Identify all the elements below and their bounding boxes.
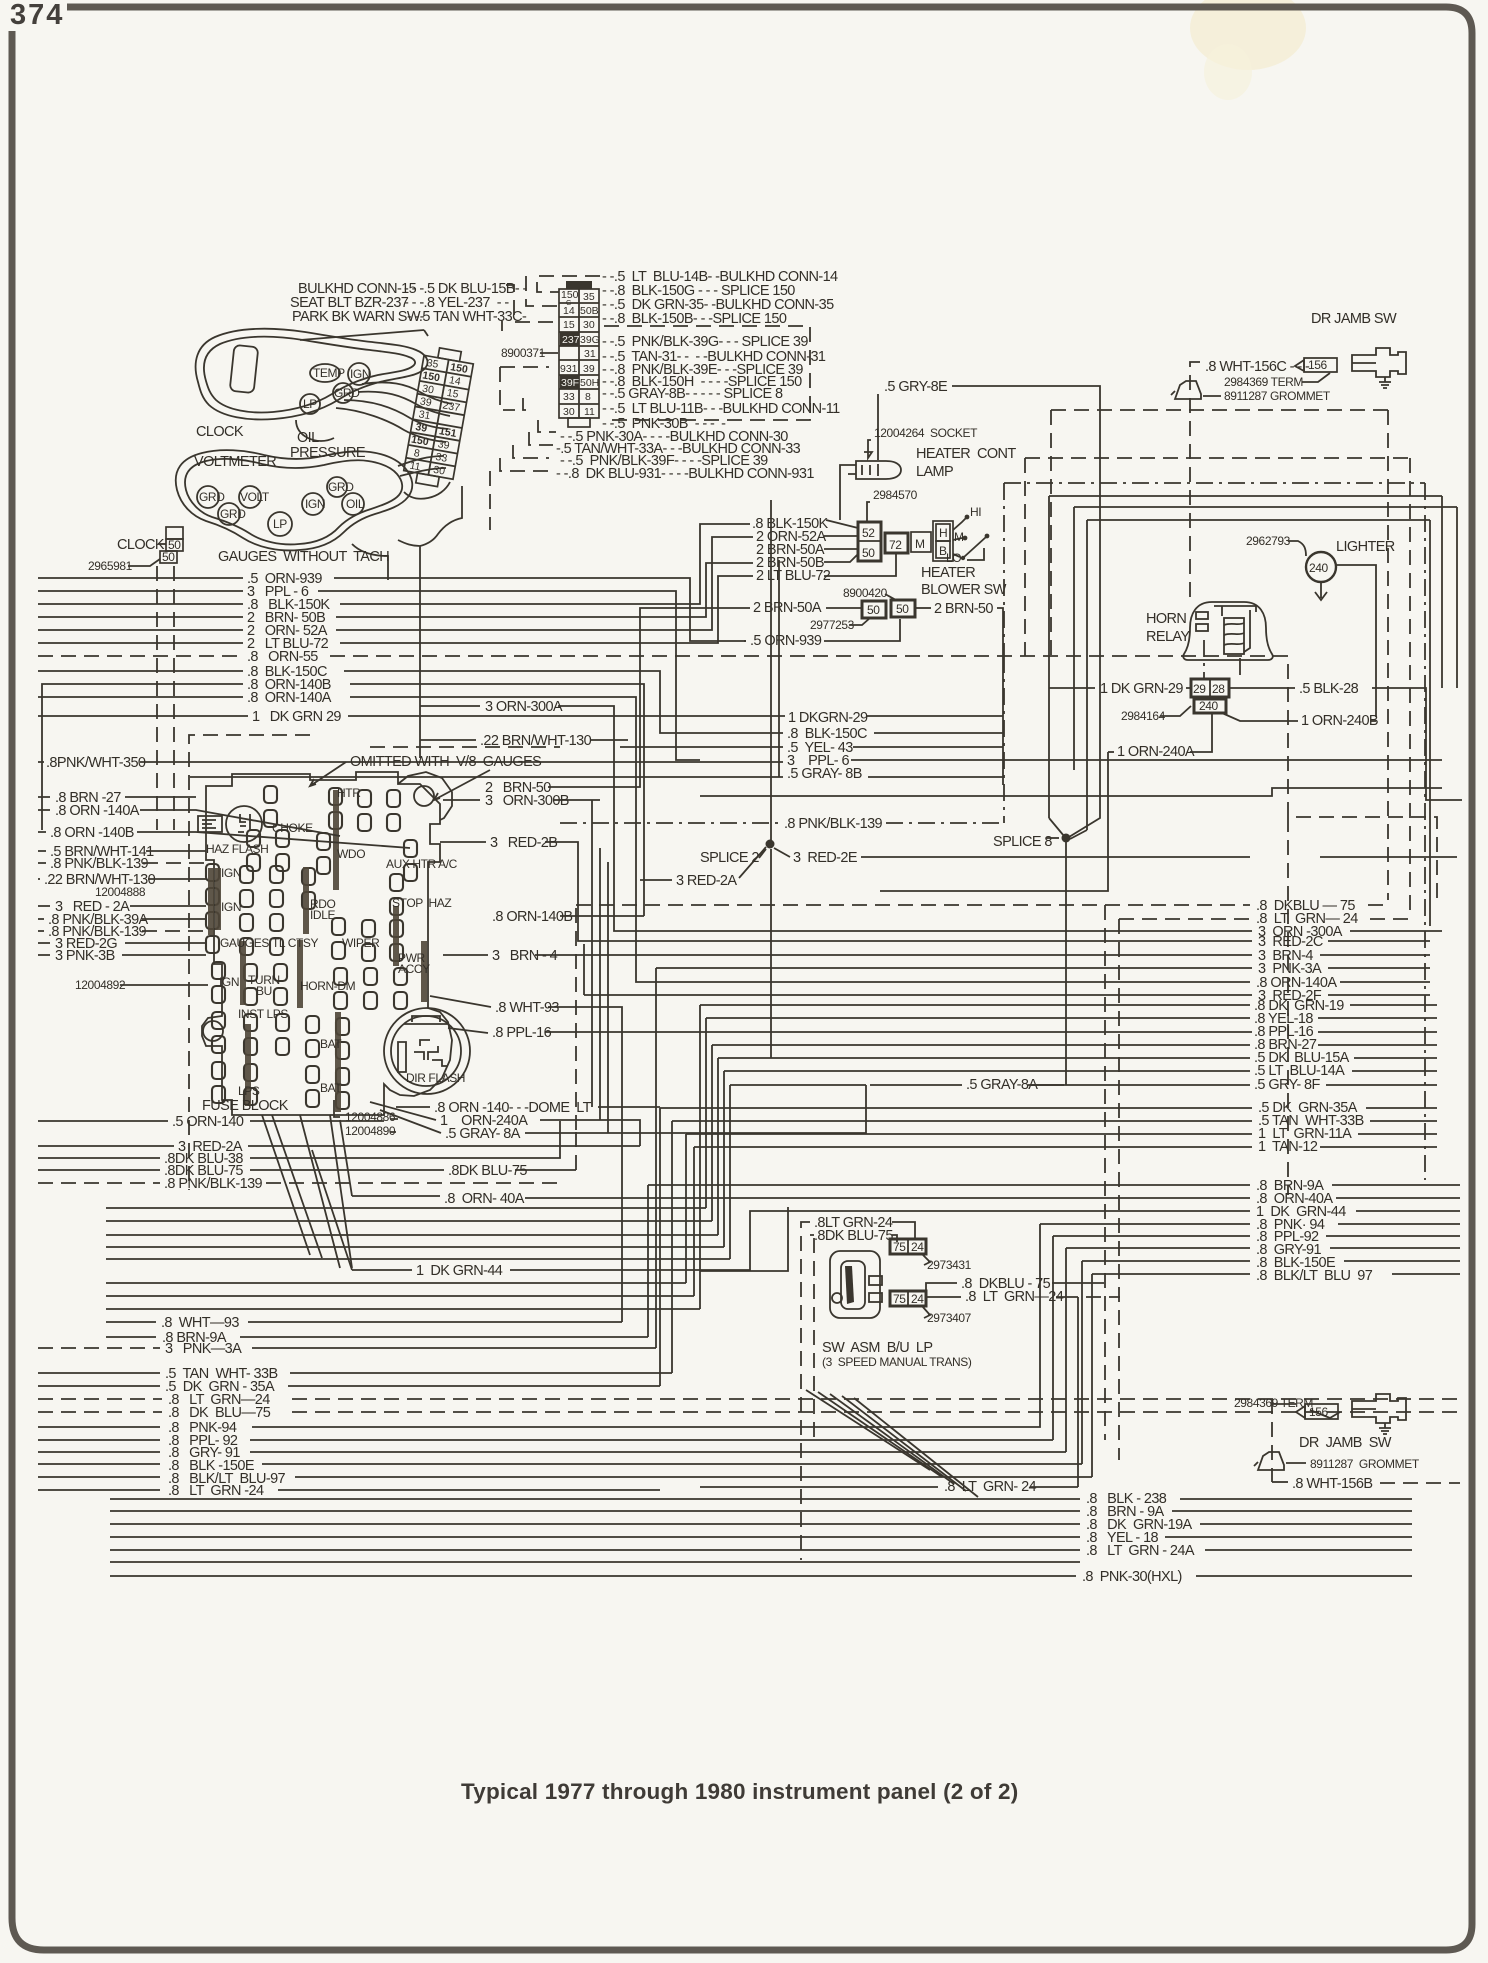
svg-text:.8 LT GRN—24: .8 LT GRN—24 (965, 1289, 1064, 1305)
wire 1 DK GRN-44 (312, 1150, 1460, 1270)
clock leads dashed (157, 566, 174, 830)
svg-text:35: 35 (426, 357, 440, 371)
svg-text:3 ORN-300B: 3 ORN-300B (485, 793, 569, 809)
wire 1 DK GRN 29 row (38, 715, 1003, 717)
horn relay (1183, 602, 1273, 660)
splice8 feed from GRY-8E (1069, 560, 1100, 837)
connector 75|24 upper (890, 1239, 926, 1254)
svg-text:39G: 39G (580, 334, 600, 346)
connector M (911, 532, 931, 552)
svg-text:14: 14 (563, 305, 575, 317)
svg-text:240: 240 (1309, 561, 1329, 575)
svg-text:3 PNK-3B: 3 PNK-3B (55, 948, 115, 964)
fuse right risers (592, 800, 608, 1133)
svg-text:374: 374 (10, 0, 64, 31)
fuse row 7 (212, 1062, 225, 1103)
svg-text:GRD: GRD (334, 386, 360, 400)
dark bus bars (211, 790, 424, 1112)
svg-text:1 ORN-240B: 1 ORN-240B (1301, 713, 1378, 729)
svg-text:24: 24 (911, 1292, 924, 1306)
circle GRD upper (333, 383, 353, 403)
svg-text:.8 PPL-16: .8 PPL-16 (492, 1025, 552, 1041)
wire 3 BRN-4 row (443, 954, 1430, 956)
svg-text:30: 30 (421, 383, 435, 397)
svg-text:8911287 GROMMET: 8911287 GROMMET (1310, 1457, 1420, 1471)
svg-text:2973407: 2973407 (927, 1311, 972, 1325)
backup lamp switch body (830, 1251, 880, 1318)
fuse row 5 (212, 962, 225, 1003)
circle TEMP (310, 364, 340, 382)
svg-text:1 DK GRN 29: 1 DK GRN 29 (252, 709, 341, 725)
trace fan from cluster to connector (362, 382, 452, 404)
svg-text:DR JAMB SW: DR JAMB SW (1299, 1435, 1392, 1451)
connector 75|24 lower (890, 1291, 926, 1306)
svg-text:GRD: GRD (220, 507, 246, 521)
svg-text:30: 30 (583, 319, 595, 331)
svg-text:IGN: IGN (221, 900, 241, 914)
dashed web left of connector (537, 276, 600, 292)
svg-text:33: 33 (563, 391, 575, 403)
svg-text:.22 BRN/WHT-130: .22 BRN/WHT-130 (480, 733, 592, 749)
svg-text:DR JAMB SW: DR JAMB SW (1311, 311, 1397, 327)
mounting ear top right (398, 772, 452, 820)
dashed bus top right (1051, 410, 1388, 656)
svg-text:.8 LT GRN -24: .8 LT GRN -24 (168, 1483, 264, 1499)
svg-text:.22 BRN/WHT-130: .22 BRN/WHT-130 (44, 872, 156, 888)
wire .8 DK BLU-75 center (38, 1169, 576, 1171)
svg-text:M: M (954, 530, 964, 544)
svg-text:LP: LP (273, 517, 287, 531)
wire unlabeled row (110, 1561, 1080, 1563)
cluster bottom legs (352, 544, 388, 580)
wire jog row (700, 788, 1442, 796)
fuse row 1 (264, 786, 277, 827)
heater cont lamp socket (856, 461, 901, 479)
wire .8 PNK/WHT-350 row (38, 760, 1442, 762)
instrument cluster printed circuit outline (196, 329, 428, 420)
svg-text:2977253: 2977253 (810, 618, 855, 632)
svg-text:50: 50 (896, 602, 909, 616)
svg-text:15: 15 (446, 387, 460, 401)
wire .8 PPL-16 row (448, 1028, 1437, 1033)
svg-text:.5 GRY- 8F: .5 GRY- 8F (1254, 1077, 1320, 1093)
svg-text:3 BRN - 4: 3 BRN - 4 (492, 948, 558, 964)
svg-text:BLOWER SW: BLOWER SW (921, 582, 1007, 598)
svg-text:STOP HAZ: STOP HAZ (392, 896, 451, 910)
riser 2 BRN-50 to fuse (548, 608, 750, 787)
dashed riser bottom jamb (1271, 1399, 1273, 1482)
svg-text:50B: 50B (580, 305, 599, 317)
svg-text:8: 8 (585, 391, 591, 403)
lighter socket (1306, 552, 1336, 582)
heater blower feed connector 52/50 (858, 522, 881, 561)
door jamb switch icon (top) (1352, 348, 1406, 377)
circle IGN lower (302, 493, 324, 515)
svg-text:IDLE: IDLE (310, 908, 335, 922)
wire 3 ORN-300B (443, 799, 600, 801)
svg-text:237: 237 (562, 334, 580, 346)
svg-text:SW ASM B/U LP: SW ASM B/U LP (822, 1340, 932, 1356)
svg-text:30: 30 (563, 406, 575, 418)
svg-text:VOLTMETER: VOLTMETER (194, 454, 276, 470)
right-edge descending bus (1387, 410, 1389, 900)
dashed riser from jamb switch (1190, 362, 1200, 600)
svg-text:GRD: GRD (199, 490, 225, 504)
svg-text:- -.5 PNK/BLK-39G- - - SPLICE: - -.5 PNK/BLK-39G- - - SPLICE 39 (602, 334, 808, 350)
circle VOLT (239, 486, 261, 508)
svg-text:OIL: OIL (346, 497, 365, 511)
svg-text:2962793: 2962793 (1246, 534, 1291, 548)
svg-text:PRESSURE: PRESSURE (290, 445, 366, 461)
svg-text:GAUGES WITHOUT TACH: GAUGES WITHOUT TACH (218, 549, 389, 565)
svg-text:OIL: OIL (297, 430, 319, 446)
terminal 156 plug (bottom) (1296, 1406, 1305, 1418)
svg-text:3 ORN-300A: 3 ORN-300A (485, 699, 563, 715)
svg-text:INST LPS: INST LPS (238, 1007, 288, 1021)
svg-text:LPS: LPS (238, 1084, 260, 1098)
wire lighter to ORN-240B (1336, 565, 1376, 717)
wire 3 PPL-6 row (38, 591, 700, 760)
svg-text:BU: BU (256, 984, 272, 998)
svg-text:12004264 SOCKET: 12004264 SOCKET (874, 426, 978, 440)
dashed box around splice-39 group (604, 326, 810, 420)
dashed harness enclosure around fuse block (189, 735, 310, 1190)
svg-text:- -.5 TAN WHT-33C-: - -.5 TAN WHT-33C- (407, 309, 527, 325)
svg-text:156: 156 (1308, 358, 1328, 372)
svg-text:8900371: 8900371 (501, 346, 546, 360)
svg-text:3 PNK—3A: 3 PNK—3A (165, 1341, 242, 1357)
svg-text:VOLT: VOLT (240, 490, 270, 504)
svg-text:72: 72 (889, 538, 902, 552)
wire 1 ORN-240A center (38, 1102, 640, 1146)
svg-text:156: 156 (1309, 1405, 1329, 1419)
svg-text:H: H (939, 526, 947, 540)
svg-text:2984570: 2984570 (873, 488, 918, 502)
wire .8 BLK-150C row (38, 671, 1003, 733)
svg-text:GRD: GRD (328, 480, 354, 494)
svg-text:- -.8 DK BLU-931- - - -BULKHD: - -.8 DK BLU-931- - - -BULKHD CONN-931 (556, 466, 814, 482)
svg-text:11: 11 (584, 406, 595, 418)
solid bus top right (1049, 496, 1442, 818)
circle LP upper (300, 394, 320, 414)
svg-text:39: 39 (583, 363, 595, 375)
wire .8 ORN-140 dome lt (396, 1106, 660, 1108)
clock window slot (230, 345, 259, 393)
svg-text:75: 75 (893, 1292, 906, 1306)
svg-text:.8PNK/WHT-350: .8PNK/WHT-350 (46, 755, 146, 771)
relay leads to connector (1203, 640, 1205, 679)
svg-text:.8 ORN-140B: .8 ORN-140B (492, 909, 572, 925)
grommet icon (top) (1171, 381, 1201, 399)
svg-text:(3 SPEED MANUAL TRANS): (3 SPEED MANUAL TRANS) (822, 1355, 972, 1369)
svg-text:AUX HTR A/C: AUX HTR A/C (386, 857, 458, 871)
svg-text:1 TAN-12: 1 TAN-12 (1258, 1139, 1318, 1155)
wire 2 LT BLU-72 row (38, 576, 753, 643)
svg-text:31: 31 (584, 348, 596, 360)
wire 1 ORN-240B (1222, 713, 1298, 721)
wire .22 BRN/WHT-130 (420, 739, 628, 741)
svg-text:.8 WHT-156B: .8 WHT-156B (1292, 1476, 1372, 1492)
clock connector 2965981 (166, 527, 183, 539)
svg-text:FUSE BLOCK: FUSE BLOCK (202, 1098, 289, 1114)
svg-text:WDO: WDO (337, 847, 365, 861)
svg-text:LO: LO (946, 551, 961, 565)
svg-text:31: 31 (418, 408, 432, 422)
svg-text:.8 LT GRN - 24A: .8 LT GRN - 24A (1086, 1543, 1195, 1559)
circle GRD volt left (197, 486, 219, 508)
flasher glyph (398, 1042, 406, 1072)
left plug (198, 816, 222, 832)
svg-text:.8 ORN -140B: .8 ORN -140B (50, 825, 134, 841)
svg-text:BAT: BAT (320, 1081, 342, 1095)
wire .8 DK BLU-38 (38, 1121, 560, 1158)
dir flash circles (384, 1008, 470, 1094)
wire 1 ORN-240A (1108, 751, 1114, 753)
svg-text:.8 WHT-156C - - -: .8 WHT-156C - - - (1205, 359, 1310, 375)
svg-text:.5 ORN-140: .5 ORN-140 (172, 1114, 244, 1130)
svg-text:39: 39 (414, 421, 428, 435)
svg-text:14: 14 (448, 374, 462, 388)
svg-text:TL CTSY: TL CTSY (272, 936, 318, 950)
svg-text:1 DK GRN-44: 1 DK GRN-44 (416, 1263, 503, 1279)
svg-text:.8 ORN-55: .8 ORN-55 (247, 649, 318, 665)
svg-text:.8 ORN- 40A: .8 ORN- 40A (444, 1191, 525, 1207)
wire 3 RED-2B riser (440, 842, 1430, 941)
svg-text:PARK BK WARN SW-: PARK BK WARN SW- (292, 309, 425, 325)
wire .8 ORN-55 row (dashed trunk) (38, 656, 1437, 900)
svg-text:.5 GRY-8E: .5 GRY-8E (884, 379, 948, 395)
svg-text:IGN: IGN (221, 866, 241, 880)
svg-text:IGN: IGN (350, 367, 370, 381)
svg-text:50: 50 (168, 538, 181, 552)
circle IGN upper (348, 363, 370, 385)
door jamb switch icon (bottom) (1352, 1394, 1406, 1423)
svg-text:2 LT BLU-72: 2 LT BLU-72 (756, 568, 831, 584)
svg-text:.5 GRAY- 8A: .5 GRAY- 8A (445, 1126, 521, 1142)
svg-text:1 DKGRN-29: 1 DKGRN-29 (788, 710, 868, 726)
wire .8 PNK/BLK-139 bottom dashed (38, 1182, 560, 1184)
splice2 feed verticals (770, 500, 772, 1058)
wire .5 ORN-939 row (38, 578, 746, 641)
svg-text:LAMP: LAMP (916, 464, 953, 480)
slant bundle to bottom rows (806, 1390, 930, 1470)
svg-text:LP: LP (303, 397, 317, 411)
grommet icon (bottom) (1254, 1452, 1284, 1470)
svg-text:3 RED-2E: 3 RED-2E (793, 850, 858, 866)
fuse block outline (202, 772, 452, 1115)
svg-text:.5 GRAY- 8B: .5 GRAY- 8B (787, 766, 862, 782)
svg-text:WIPER: WIPER (342, 936, 380, 950)
scan yellow blotch (1190, 0, 1306, 70)
wire .5 BLK-28 (1229, 687, 1295, 689)
wire 3 RED-2A to splice (640, 847, 766, 880)
connector 50 (right) (891, 600, 915, 617)
svg-text:HTR: HTR (337, 786, 361, 800)
oil pressure slot (296, 420, 334, 441)
svg-text:RELAY: RELAY (1146, 629, 1190, 645)
svg-text:2984164: 2984164 (1121, 709, 1166, 723)
svg-text:2984369 TERM: 2984369 TERM (1224, 375, 1303, 389)
dir flash top tab (404, 1016, 448, 1024)
svg-text:2965981: 2965981 (88, 559, 133, 573)
svg-text:HEATER CONT: HEATER CONT (916, 446, 1016, 462)
wire .5 ORN-140 (38, 1120, 384, 1122)
leader lines to part labels (262, 1115, 352, 1268)
svg-text:- -.5 LT BLU-11B- - -BULKHD C: - -.5 LT BLU-11B- - -BULKHD CONN-11 (602, 401, 840, 417)
svg-text:29: 29 (1193, 682, 1206, 696)
circle GRD lower-mid (327, 477, 347, 497)
svg-text:15: 15 (563, 319, 575, 331)
svg-text:SPLICE 8: SPLICE 8 (993, 834, 1052, 850)
svg-text:.8DK BLU-75: .8DK BLU-75 (814, 1228, 893, 1244)
connector 29|28 (1191, 679, 1229, 697)
circle GRD lower-left (218, 503, 240, 525)
svg-text:50: 50 (162, 550, 175, 564)
svg-text:HORN: HORN (1146, 611, 1186, 627)
svg-text:2 BRN-50A: 2 BRN-50A (753, 600, 822, 616)
svg-text:3 RED-2A: 3 RED-2A (676, 873, 737, 889)
svg-text:50H: 50H (580, 377, 599, 389)
svg-text:Typical 1977 through 1980 inst: Typical 1977 through 1980 instrument pan… (461, 1779, 1018, 1804)
svg-text:52: 52 (862, 526, 875, 540)
connector 72 (885, 533, 908, 553)
wire .8 ORN-140A row (38, 697, 1430, 982)
svg-text:HORN-DM: HORN-DM (300, 979, 356, 993)
svg-text:.8DK BLU-75: .8DK BLU-75 (448, 1163, 527, 1179)
connector C2 (bulkhead half) (559, 289, 599, 418)
svg-text:CLOCK: CLOCK (196, 424, 244, 440)
svg-text:OMITTED WITH V/8 GAUGES: OMITTED WITH V/8 GAUGES (350, 754, 541, 770)
wire .5 GRAY-8A center (380, 1085, 866, 1133)
svg-text:HI: HI (970, 505, 981, 519)
svg-text:8900420: 8900420 (843, 586, 888, 600)
svg-text:.8 PNK/BLK-139: .8 PNK/BLK-139 (50, 856, 149, 872)
svg-text:.5 GRAY-8A: .5 GRAY-8A (966, 1077, 1038, 1093)
svg-text:.8 WHT—93: .8 WHT—93 (161, 1315, 239, 1331)
svg-text:M: M (915, 537, 925, 551)
wire .8 WHT-93 riser (106, 996, 622, 1322)
connector 240 (1194, 699, 1226, 713)
wire .8 ORN-40A center (340, 1120, 1460, 1198)
fuse row 2 (247, 830, 260, 871)
connector 50 (left) (862, 601, 886, 618)
mounting ear bottom left (203, 1021, 223, 1041)
svg-text:12004890: 12004890 (345, 1124, 396, 1138)
svg-text:CLOCK: CLOCK (117, 537, 165, 553)
svg-text:GAUGES: GAUGES (220, 936, 269, 950)
wire GRY-8E (878, 386, 1100, 560)
label 2 BRN-50 (915, 607, 931, 609)
svg-text:HEATER: HEATER (921, 565, 975, 581)
svg-text:DIR FLASH: DIR FLASH (406, 1071, 465, 1085)
svg-text:.8 PNK/BLK-139: .8 PNK/BLK-139 (164, 1176, 263, 1192)
svg-text:.8 DK BLU—75: .8 DK BLU—75 (168, 1405, 271, 1421)
wire .8 ORN-140B row (42, 684, 644, 916)
svg-text:931: 931 (560, 363, 578, 375)
svg-text:240: 240 (1199, 699, 1219, 713)
fuse row 3 (206, 864, 219, 905)
svg-text:ACCY: ACCY (398, 962, 430, 976)
wire 2 ORN-52A row (38, 537, 753, 630)
svg-text:39: 39 (419, 395, 433, 409)
wire gray-8B row (190, 776, 1003, 778)
svg-text:50: 50 (862, 546, 875, 560)
svg-text:1 DK GRN-29: 1 DK GRN-29 (1100, 681, 1183, 697)
terminal 156 plug (1295, 360, 1304, 371)
svg-text:.8 WHT-93: .8 WHT-93 (495, 1000, 559, 1016)
solid corner wire left of switch (700, 1207, 788, 1271)
svg-text:24: 24 (911, 1240, 924, 1254)
wire pnk/blk-139 dashdot row (560, 656, 1004, 823)
svg-text:.8 BLK/LT BLU 97: .8 BLK/LT BLU 97 (1256, 1268, 1373, 1284)
svg-text:2973431: 2973431 (927, 1258, 972, 1272)
fuse row 6 (212, 1012, 225, 1053)
dashed trunk extension (1287, 817, 1289, 1195)
svg-text:- -.8 BLK-150B- - -SPLICE 150: - -.8 BLK-150B- - -SPLICE 150 (602, 311, 787, 327)
svg-text:11: 11 (409, 460, 422, 474)
splice 8 junction (1049, 818, 1087, 1085)
wire 2 BRN-50B row (38, 563, 753, 617)
svg-text:- -.5 GRAY-8B- - - - - SPLICE: - -.5 GRAY-8B- - - - - SPLICE 8 (602, 386, 783, 402)
splice 2 junction dot (766, 840, 775, 849)
svg-text:39: 39 (437, 438, 451, 452)
wires into blower connectors (826, 520, 858, 528)
blower switch H/B (933, 521, 953, 561)
circle OIL (342, 493, 364, 515)
wire .8 BLK-150K row (38, 524, 750, 604)
switch contacts HI M LO (953, 518, 966, 530)
svg-text:BAT: BAT (320, 1037, 342, 1051)
svg-text:35: 35 (583, 291, 595, 303)
svg-text:39F: 39F (561, 377, 579, 389)
svg-text:.8 ORN-140A: .8 ORN-140A (247, 690, 332, 706)
svg-text:SPLICE 2: SPLICE 2 (700, 850, 759, 866)
svg-text:50: 50 (867, 603, 880, 617)
svg-text:IGN: IGN (305, 497, 325, 511)
svg-text:.5 ORN-939: .5 ORN-939 (750, 633, 822, 649)
svg-text:LIGHTER: LIGHTER (1336, 539, 1395, 555)
svg-text:.8 ORN -140A: .8 ORN -140A (55, 803, 140, 819)
wire 3 ORN-300A riser (420, 706, 1442, 931)
fuse row 4 (206, 912, 219, 953)
svg-text:TEMP: TEMP (313, 366, 345, 380)
svg-text:8911287 GROMMET: 8911287 GROMMET (1224, 389, 1331, 403)
svg-text:33: 33 (435, 451, 449, 465)
wire .5 YEL-43 row (620, 746, 1003, 748)
svg-text:3 RED-2B: 3 RED-2B (490, 835, 557, 851)
svg-text:.8 PNK-30(HXL): .8 PNK-30(HXL) (1082, 1569, 1182, 1585)
svg-text:30: 30 (432, 464, 446, 478)
svg-text:.8 PNK/BLK-139: .8 PNK/BLK-139 (784, 816, 883, 832)
wire splice2 red-2E (774, 848, 1457, 857)
cluster lower body outline (176, 450, 413, 550)
svg-text:28: 28 (1212, 682, 1225, 696)
connector C1 (cluster plug) (402, 345, 475, 489)
svg-text:IGN: IGN (219, 975, 239, 989)
haz flash circle (226, 806, 262, 842)
svg-text:2 BRN-50: 2 BRN-50 (934, 601, 993, 617)
svg-text:75: 75 (893, 1240, 906, 1254)
circle LP lower (268, 512, 292, 536)
svg-text:.5 BLK-28: .5 BLK-28 (1299, 681, 1359, 697)
svg-text:12004892: 12004892 (75, 978, 126, 992)
svg-text:1 ORN-240A: 1 ORN-240A (1117, 744, 1195, 760)
